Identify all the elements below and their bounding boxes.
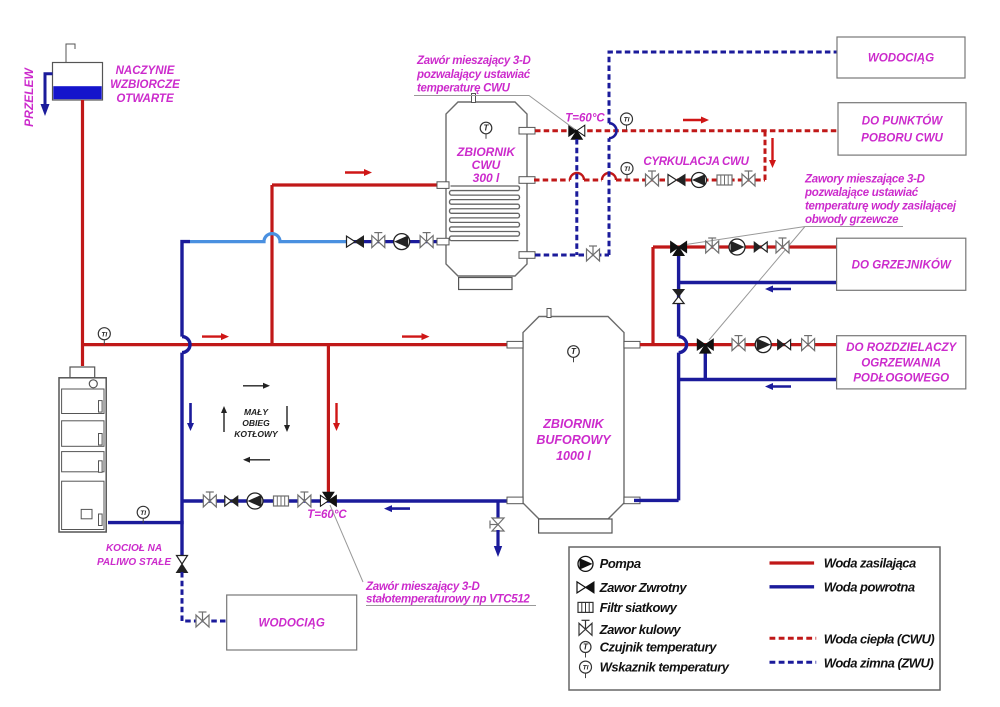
buffer tank stub bottom-left (507, 497, 523, 504)
svg-text:OBIEG: OBIEG (242, 418, 270, 428)
wire: red supply buffer to heating circuits (640, 343, 837, 346)
temperature indicator TI2 on boiler outlet (142, 512, 144, 523)
svg-text:WODOCIĄG: WODOCIĄG (868, 52, 934, 65)
wire: dashed blue makeup water to WODOCIAG (182, 572, 227, 621)
flow arrow right on main supply (left) (202, 335, 221, 337)
check valve on circulation line (668, 175, 677, 186)
pump radiator circuit (729, 239, 745, 255)
check valve vertical on combined return (673, 297, 684, 304)
pump on CWU return (394, 234, 410, 250)
svg-text:POBORU CWU: POBORU CWU (861, 131, 943, 144)
svg-text:Woda zasilająca: Woda zasilająca (824, 556, 916, 571)
node DO GRZEJNIKOW box (837, 238, 966, 290)
temperature indicator TI4 on circulation line (626, 169, 628, 180)
wire: main red supply line from boiler tee to buffer tank (83, 343, 514, 346)
svg-text:PRZELEW: PRZELEW (22, 66, 36, 126)
svg-text:WODOCIĄG: WODOCIĄG (259, 617, 325, 630)
expansion vessel NACZYNIE WZBIORCZE body (53, 63, 103, 101)
svg-text:CWU: CWU (472, 158, 501, 172)
ball valve on boiler loop (valve side) (298, 492, 311, 507)
buffer tank vent stub (547, 309, 551, 318)
buffer tank stub top-left (507, 341, 523, 348)
svg-text:Zawór mieszający 3-D: Zawór mieszający 3-D (416, 55, 531, 67)
svg-text:PODŁOGOWEGO: PODŁOGOWEGO (853, 372, 949, 385)
node WODOCIAG (bottom) box (227, 595, 357, 650)
check valve radiator circuit (761, 242, 768, 252)
svg-text:TI: TI (140, 510, 146, 517)
node WODOCIAG (top) box (837, 37, 965, 78)
legend TI indicator icon (585, 667, 587, 678)
wire: dashed red hot water line to DO PUNKTOW (535, 129, 838, 132)
svg-text:CYRKULACJA CWU: CYRKULACJA CWU (643, 156, 749, 168)
flow arrow left on floor-heating return (773, 385, 791, 388)
CWU tank right stub (hot water out) (519, 127, 535, 134)
wire: red drop from vessel to boiler chimney (81, 100, 84, 366)
svg-text:DO PUNKTÓW: DO PUNKTÓW (862, 114, 944, 127)
legend red solid sample (770, 561, 815, 564)
svg-text:KOTŁOWY: KOTŁOWY (234, 429, 279, 439)
ball valve on CWU return (372, 233, 385, 248)
wire: blue boiler outlet line (108, 521, 184, 524)
ball valve on CWU return (tank side) (420, 233, 433, 248)
svg-text:pozwalający ustawiać: pozwalający ustawiać (416, 69, 531, 81)
wire: blue into buffer bottom-right stub (634, 499, 679, 502)
flow arrow down beside red drop (335, 403, 337, 423)
svg-text:T=60°C: T=60°C (565, 113, 605, 125)
3-way mixing valve floor circuit (697, 339, 705, 350)
check valve on boiler loop (225, 496, 232, 506)
3-way thermostatic valve T=60C at boiler (320, 495, 328, 506)
buffer tank base (539, 519, 612, 533)
boiler body (59, 378, 106, 532)
boiler top circle (89, 380, 97, 388)
flow arrow right on main supply (right) (402, 335, 422, 337)
svg-text:PALIWO STAŁE: PALIWO STAŁE (97, 557, 171, 568)
svg-text:TI: TI (583, 665, 589, 672)
flow arrow left on return to boiler valve (392, 507, 410, 510)
ball valve radiator circuit (right) (776, 238, 789, 253)
ball valve on makeup water line (196, 612, 209, 627)
ball valve floor circuit (732, 336, 745, 351)
svg-text:obwody grzewcze: obwody grzewcze (805, 214, 899, 226)
filter on circulation line (717, 175, 732, 185)
legend ball valve icon (579, 620, 592, 635)
wire: light blue CWU return with jump over red riser (190, 234, 346, 242)
svg-text:T=60°C: T=60°C (307, 509, 347, 521)
buffer tank stub bottom-right (624, 497, 640, 504)
flow arrow down on circulation drop (771, 138, 773, 160)
svg-text:Woda powrotna: Woda powrotna (824, 580, 915, 595)
wire: dashed red circulation drop (764, 131, 767, 180)
flow arrow down beside blue vertical (189, 403, 192, 423)
svg-text:1000 l: 1000 l (556, 449, 591, 463)
flow arrow left on radiator return (773, 288, 791, 291)
temperature indicator TI3 on hot water line (626, 119, 628, 130)
wire: makeup water check valve on boiler drop (177, 556, 188, 565)
ball valve on boiler loop (203, 492, 216, 507)
boiler door 4 (62, 481, 104, 529)
svg-text:Czujnik temperatury: Czujnik temperatury (600, 640, 718, 655)
svg-text:Filtr siatkowy: Filtr siatkowy (600, 600, 678, 615)
CWU heat exchanger coil (449, 186, 519, 241)
svg-text:Zawór mieszający 3-D: Zawór mieszający 3-D (365, 581, 480, 593)
svg-text:TI: TI (101, 331, 107, 338)
drain branch with valve and arrow (496, 501, 499, 519)
svg-text:Woda zimna (ZWU): Woda zimna (ZWU) (824, 656, 934, 671)
ball valve floor circuit (right) (802, 336, 815, 351)
3-way mixing valve T=60C on hot water (569, 125, 577, 136)
flow arrow right on CWU coil feed (345, 171, 364, 173)
wire: dashed blue riser to WODOCIAG with jump (608, 138, 611, 255)
ball valve on circulation line (right) (742, 171, 755, 186)
legend check valve icon (577, 582, 586, 593)
temperature sensor T on buffer tank (573, 352, 575, 363)
svg-text:Pompa: Pompa (600, 556, 641, 571)
pump floor circuit (755, 337, 771, 353)
buffer tank stub top-right (624, 341, 640, 348)
boiler KOCIOL chimney (70, 367, 95, 378)
boiler door 1 (62, 389, 104, 414)
wire: blue radiator return (679, 281, 837, 284)
expansion vessel vent pipe (66, 44, 75, 62)
svg-text:WZBIORCZE: WZBIORCZE (110, 79, 180, 91)
wire: red feed to CWU coil inlet (272, 183, 440, 186)
legend filter icon (578, 602, 593, 612)
flow arrow right on hot water line (683, 119, 701, 121)
wire: red riser to CWU coil (270, 185, 273, 346)
svg-text:pozwalające ustawiać: pozwalające ustawiać (804, 187, 919, 199)
pump on circulation line (692, 173, 707, 188)
svg-text:Zawor kulowy: Zawor kulowy (599, 622, 682, 637)
wire: red drop to boiler mixing valve (327, 346, 330, 495)
svg-text:MAŁY: MAŁY (244, 407, 269, 417)
CWU tank vent stub (472, 94, 476, 103)
CWU tank right stub (cold water in) (519, 252, 535, 259)
tank ZBIORNIK BUFOROWY body (523, 317, 624, 520)
expansion vessel water fill (53, 86, 101, 99)
svg-text:ZBIORNIK: ZBIORNIK (542, 417, 604, 431)
CWU tank left stub (coil outlet) (437, 238, 449, 245)
svg-text:NACZYNIE: NACZYNIE (116, 65, 175, 77)
svg-text:DO ROZDZIELACZY: DO ROZDZIELACZY (846, 341, 957, 354)
svg-text:temperaturę wody zasilającej: temperaturę wody zasilającej (805, 201, 957, 213)
svg-text:Zawor Zwrotny: Zawor Zwrotny (599, 580, 688, 595)
temperature indicator TI1 on main supply (103, 334, 105, 345)
svg-text:stałotemperaturowy np VTC512: stałotemperaturowy np VTC512 (366, 594, 530, 606)
legend red dashed sample (770, 637, 817, 640)
check valve floor circuit (784, 340, 791, 350)
wire: blue boiler loop line (182, 499, 513, 502)
CWU tank left stub (coil inlet) (437, 182, 449, 189)
CWU tank base (459, 278, 512, 290)
wire: blue drop from radiator mixing valve with jump (677, 252, 680, 337)
ball valve radiator circuit (706, 238, 719, 253)
svg-text:Woda ciepła (CWU): Woda ciepła (CWU) (824, 632, 935, 647)
svg-text:OGRZEWANIA: OGRZEWANIA (861, 356, 941, 369)
wire: dashed red circulation line with jumps (534, 179, 570, 182)
wire: blue floor-heating return (679, 378, 837, 381)
legend T sensor icon (585, 647, 587, 658)
3-way mixing valve radiator circuit (671, 242, 679, 253)
svg-text:Zawory mieszające 3-D: Zawory mieszające 3-D (804, 173, 925, 185)
svg-text:OTWARTE: OTWARTE (116, 93, 174, 105)
tank ZBIORNIK CWU body (446, 102, 527, 276)
svg-text:BUFOROWY: BUFOROWY (536, 433, 612, 447)
small circulation arrows (243, 385, 263, 387)
node DO PUNKTOW POBORU CWU box (838, 103, 966, 155)
boiler door 2 (62, 421, 104, 447)
boiler door 3 (62, 452, 104, 472)
ball valve on cold water line (587, 246, 600, 261)
ball valve on circulation line (646, 171, 659, 186)
label Zawor mieszajacy stalotemperaturowy with leader (330, 505, 363, 582)
svg-text:KOCIOŁ NA: KOCIOŁ NA (106, 543, 162, 554)
wire: blue CWU return corner and vertical with jump over supply (182, 242, 190, 337)
wire: red radiator circuit line (653, 245, 837, 248)
wire: dashed blue cold water from tank bottom (535, 254, 609, 257)
wire: dashed blue drop from CWU valve (575, 139, 578, 255)
svg-text:300 l: 300 l (473, 171, 500, 185)
wire: red riser to radiator circuit (651, 247, 654, 346)
CWU tank right stub (circulation) (519, 177, 535, 184)
wire: blue drop from floor mixing valve (704, 350, 707, 380)
svg-text:DO GRZEJNIKÓW: DO GRZEJNIKÓW (852, 258, 952, 271)
svg-text:TI: TI (624, 117, 630, 124)
svg-text:temperaturę CWU: temperaturę CWU (417, 83, 511, 95)
legend blue dashed sample (770, 661, 817, 664)
svg-text:TI: TI (624, 166, 630, 173)
PRZELEW overflow pipe with arrow (45, 74, 53, 104)
temperature sensor T on CWU tank (485, 128, 487, 139)
legend box (569, 547, 940, 690)
svg-text:Wskaznik temperatury: Wskaznik temperatury (600, 660, 730, 675)
wire: blue CWU return horizontal (navy part under valves) (346, 240, 440, 243)
legend blue solid sample (770, 585, 815, 588)
svg-text:ZBIORNIK: ZBIORNIK (456, 145, 516, 159)
filter on boiler loop (274, 496, 289, 506)
node DO ROZDZIELACZY box (837, 336, 966, 389)
check valve on CWU return (347, 236, 356, 247)
pump on boiler loop (247, 493, 263, 509)
legend pump icon (578, 556, 593, 571)
